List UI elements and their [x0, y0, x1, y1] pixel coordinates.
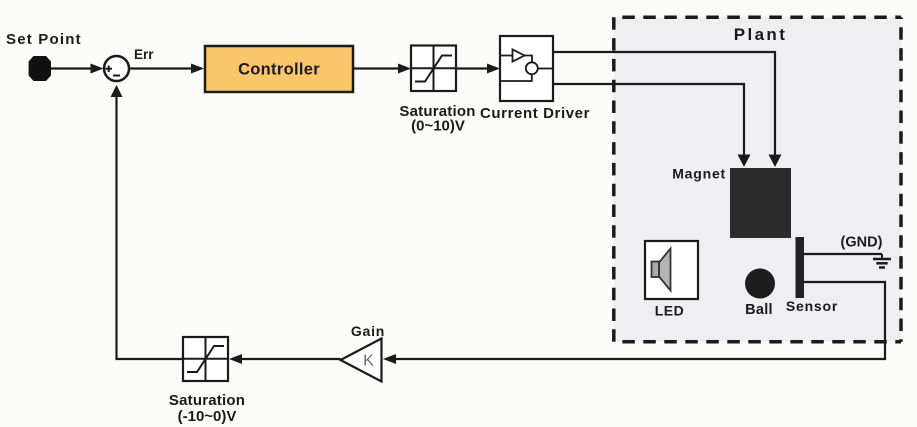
svg-text:Sensor: Sensor: [786, 298, 838, 314]
svg-text:Plant: Plant: [734, 25, 788, 44]
svg-text:Current Driver: Current Driver: [480, 105, 590, 122]
svg-text:(-10~0)V: (-10~0)V: [178, 408, 237, 425]
svg-text:Magnet: Magnet: [672, 166, 726, 182]
svg-text:Set Point: Set Point: [6, 31, 82, 48]
svg-text:(GND): (GND): [841, 235, 883, 251]
svg-text:K: K: [363, 353, 374, 370]
svg-text:LED: LED: [655, 303, 685, 319]
svg-text:(0~10)V: (0~10)V: [411, 118, 465, 135]
svg-text:Err: Err: [134, 47, 154, 62]
svg-text:Controller: Controller: [238, 61, 320, 79]
svg-text:Ball: Ball: [745, 302, 773, 318]
svg-text:Gain: Gain: [351, 323, 385, 339]
svg-text:Saturation: Saturation: [169, 392, 245, 409]
